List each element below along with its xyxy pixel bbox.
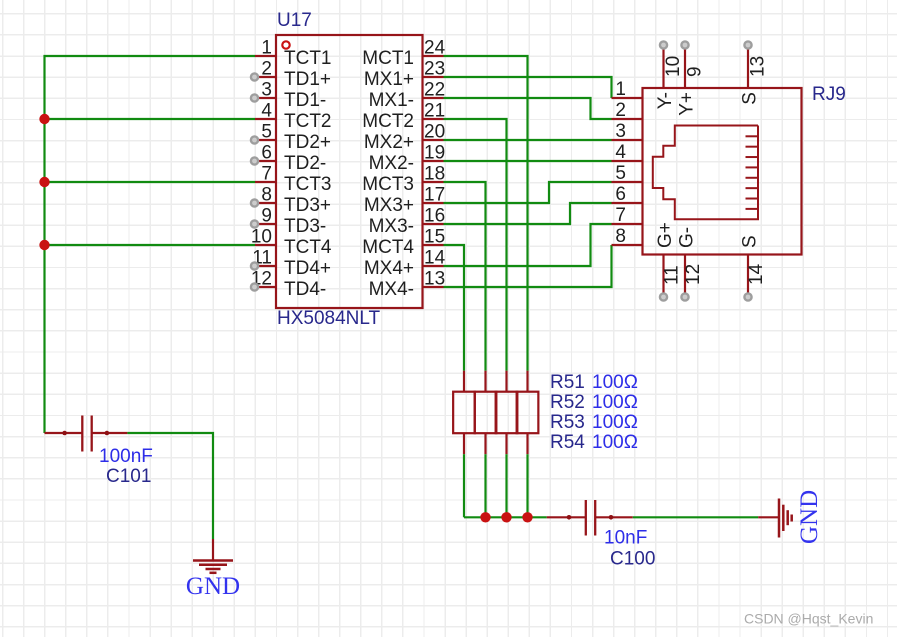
wire net MCT1 to resistor column (444, 56, 528, 371)
RJ9 pin 9 (Y+, top) (677, 41, 706, 115)
net label GND (right, rotated) (796, 490, 823, 544)
svg-text:1: 1 (261, 38, 272, 59)
ground GND (left) (193, 539, 233, 573)
wire net MX4- to RJ9 (444, 245, 612, 287)
RJ9 pin 6 (612, 184, 643, 205)
svg-text:9: 9 (261, 206, 272, 227)
svg-text:16: 16 (424, 206, 445, 227)
wire net MX2+ to RJ9 (444, 139, 612, 141)
svg-text:Y-: Y- (655, 92, 676, 109)
wire below R54 (526, 454, 528, 517)
svg-text:MCT4: MCT4 (362, 237, 414, 258)
svg-text:9: 9 (685, 66, 706, 77)
RJ9 pin 1 (612, 79, 643, 100)
svg-text:G+: G+ (655, 222, 676, 248)
svg-text:TD2+: TD2+ (284, 132, 331, 153)
svg-text:17: 17 (424, 185, 445, 206)
label R54 value 100Ω (592, 432, 638, 453)
RJ9 pin 14 (S, bottom) (740, 235, 768, 300)
svg-text:G-: G- (677, 227, 698, 248)
wire C101 to GND (127, 433, 213, 539)
svg-text:20: 20 (424, 122, 445, 143)
svg-text:S: S (740, 235, 761, 248)
pin 15 (MCT4) (362, 227, 445, 259)
svg-text:7: 7 (615, 205, 626, 226)
svg-text:6: 6 (261, 143, 272, 164)
svg-text:13: 13 (748, 56, 769, 77)
svg-text:TD3+: TD3+ (284, 195, 331, 216)
svg-text:8: 8 (615, 226, 626, 247)
pin 20 (MX2+) (364, 122, 445, 154)
wire net MX3- to RJ9 (444, 203, 612, 224)
junction at pin7 bus (39, 177, 49, 187)
wire net MCT2 to resistor column (444, 119, 507, 371)
svg-text:2: 2 (261, 59, 272, 80)
svg-text:22: 22 (424, 80, 445, 101)
wire net TCT1 (pin1 to left bus) (45, 56, 256, 433)
pin 10 (TCT4) (251, 227, 332, 259)
pin 7 (TCT3) (255, 164, 332, 196)
pin 24 (MCT1) (362, 38, 445, 70)
wire below R51 (463, 454, 465, 517)
svg-text:100Ω: 100Ω (592, 392, 638, 413)
svg-text:HX5084NLT: HX5084NLT (277, 308, 381, 329)
svg-text:10: 10 (663, 56, 684, 77)
svg-text:TD1+: TD1+ (284, 69, 331, 90)
pin 1 (TCT1) (255, 38, 332, 70)
RJ9 pin 13 (S, top) (740, 41, 769, 104)
svg-text:R51: R51 (550, 372, 585, 393)
pin 8 (TD3+) (251, 185, 331, 217)
svg-text:4: 4 (615, 142, 626, 163)
svg-text:U17: U17 (277, 10, 312, 31)
svg-text:Y+: Y+ (677, 92, 698, 116)
ic U17 (HX5084NLT Ethernet transformer) (276, 35, 423, 308)
capacitor C100 (547, 500, 633, 536)
wire net TCT2 (45, 118, 256, 120)
RJ9 pin 7 (612, 205, 643, 226)
svg-text:TCT1: TCT1 (284, 48, 332, 69)
label R51 value 100Ω (592, 372, 638, 393)
svg-text:MX1-: MX1- (369, 90, 414, 111)
wire below R52 (484, 454, 486, 517)
pin 13 (MX4-) (369, 269, 446, 301)
pin 5 (TD2+) (251, 122, 331, 154)
designator R54 (550, 432, 585, 453)
svg-text:3: 3 (615, 121, 626, 142)
svg-text:8: 8 (261, 185, 272, 206)
svg-text:MCT3: MCT3 (362, 174, 414, 195)
svg-text:MX4+: MX4+ (364, 258, 414, 279)
wire resistor commons to C100 (464, 516, 547, 518)
svg-text:GND: GND (796, 490, 823, 544)
RJ9 pin 12 (G-, bottom) (677, 227, 705, 301)
svg-text:MX3-: MX3- (369, 216, 414, 237)
svg-text:S: S (740, 92, 761, 105)
svg-text:MX2-: MX2- (369, 153, 414, 174)
svg-text:6: 6 (615, 184, 626, 205)
RJ9 pin 11 (G+, bottom) (655, 222, 683, 300)
svg-text:MX1+: MX1+ (364, 69, 414, 90)
RJ9 jack contact teeth (746, 136, 759, 209)
svg-text:TD2-: TD2- (284, 153, 326, 174)
connector RJ9 body (643, 88, 802, 255)
svg-text:TD4+: TD4+ (284, 258, 331, 279)
designator RJ9 (812, 84, 846, 105)
value HX5084NLT (277, 308, 381, 329)
label R53 value 100Ω (592, 412, 638, 433)
wire net MX4+ to RJ9 (444, 224, 612, 266)
svg-text:MX4-: MX4- (369, 279, 414, 300)
svg-text:C101: C101 (106, 466, 151, 487)
pin 6 (TD2-) (251, 143, 326, 175)
capacitor C101 (45, 416, 128, 452)
svg-text:4: 4 (261, 101, 272, 122)
wire C100 to GND (633, 516, 758, 518)
svg-text:R52: R52 (550, 392, 585, 413)
pin 16 (MX3-) (369, 206, 446, 238)
pin 19 (MX2-) (369, 143, 446, 175)
designator R51 (550, 372, 585, 393)
svg-text:R53: R53 (550, 412, 585, 433)
svg-text:TD1-: TD1- (284, 90, 326, 111)
svg-text:24: 24 (424, 38, 446, 59)
label R52 value 100Ω (592, 392, 638, 413)
resistor R52 (475, 371, 497, 455)
RJ9 pin 10 (Y-, top) (655, 41, 684, 109)
svg-text:3: 3 (261, 80, 272, 101)
RJ9 jack outline drawing (653, 126, 758, 220)
svg-text:100Ω: 100Ω (592, 372, 638, 393)
pin-1 indicator ring (282, 41, 289, 48)
svg-text:19: 19 (424, 143, 445, 164)
label 10nF (C100 value) (604, 528, 647, 549)
pin 14 (MX4+) (364, 248, 446, 280)
svg-text:5: 5 (615, 163, 626, 184)
designator R52 (550, 392, 585, 413)
RJ9 pin 2 (612, 100, 643, 121)
svg-text:15: 15 (424, 227, 445, 248)
pin 4 (TCT2) (255, 101, 332, 133)
svg-text:TD4-: TD4- (284, 279, 326, 300)
svg-text:1: 1 (615, 79, 626, 100)
RJ9 pin 8 (612, 226, 643, 247)
pin 22 (MX1-) (369, 80, 446, 112)
svg-text:5: 5 (261, 122, 272, 143)
svg-text:14: 14 (424, 248, 446, 269)
svg-text:18: 18 (424, 164, 445, 185)
junction R54 (522, 512, 532, 522)
pin 18 (MCT3) (362, 164, 445, 196)
designator U17 (277, 10, 312, 31)
wire net MCT4 to resistor column (444, 245, 465, 371)
svg-text:23: 23 (424, 59, 445, 80)
svg-text:100nF: 100nF (99, 446, 153, 467)
wire net MX1+ to RJ9 (444, 77, 612, 98)
svg-text:MCT2: MCT2 (362, 111, 414, 132)
label 100nF (C101 value) (99, 446, 153, 467)
svg-text:TCT2: TCT2 (284, 111, 332, 132)
net label GND (left) (186, 573, 240, 600)
junction R53 (501, 512, 511, 522)
wire net TCT4 (45, 244, 256, 246)
svg-text:7: 7 (261, 164, 272, 185)
svg-text:MCT1: MCT1 (362, 48, 414, 69)
wire net MCT3 to resistor column (444, 182, 486, 371)
ground GND (right, rotated) (758, 499, 792, 538)
resistor R51 (453, 371, 475, 455)
watermark (744, 611, 873, 627)
pin 12 (TD4-) (251, 269, 326, 301)
svg-text:TCT3: TCT3 (284, 174, 332, 195)
svg-text:TCT4: TCT4 (284, 237, 332, 258)
svg-text:RJ9: RJ9 (812, 84, 846, 105)
pin 23 (MX1+) (364, 59, 445, 91)
designator C101 (106, 466, 151, 487)
svg-text:TD3-: TD3- (284, 216, 326, 237)
pin 21 (MCT2) (362, 101, 445, 133)
pin 2 (TD1+) (251, 59, 331, 91)
resistor R53 (496, 371, 518, 455)
resistor R54 (517, 371, 539, 455)
svg-text:10nF: 10nF (604, 528, 647, 549)
svg-text:100Ω: 100Ω (592, 432, 638, 453)
svg-text:12: 12 (683, 264, 704, 285)
svg-text:14: 14 (746, 263, 767, 285)
svg-text:2: 2 (615, 100, 626, 121)
svg-text:13: 13 (424, 269, 445, 290)
wire net TCT3 (45, 181, 256, 183)
svg-text:R54: R54 (550, 432, 585, 453)
RJ9 pin 3 (612, 121, 643, 142)
pin 9 (TD3-) (251, 206, 326, 238)
wire below R53 (505, 454, 507, 517)
wire net MX2- to RJ9 (444, 160, 612, 162)
svg-text:100Ω: 100Ω (592, 412, 638, 433)
wire net MX3+ to RJ9 (444, 182, 612, 203)
wire net MX1- to RJ9 (444, 98, 612, 119)
junction at pin10 bus (39, 240, 49, 250)
RJ9 pin 5 (612, 163, 643, 184)
designator R53 (550, 412, 585, 433)
svg-text:MX2+: MX2+ (364, 132, 414, 153)
svg-text:MX3+: MX3+ (364, 195, 414, 216)
pin 11 (TD4+) (251, 248, 331, 280)
designator C100 (610, 549, 655, 570)
RJ9 pin 4 (612, 142, 643, 163)
svg-text:GND: GND (186, 573, 240, 600)
svg-text:CSDN @Hqst_Kevin: CSDN @Hqst_Kevin (744, 611, 873, 627)
junction at pin4 bus (39, 114, 49, 124)
svg-text:21: 21 (424, 101, 445, 122)
svg-text:C100: C100 (610, 549, 655, 570)
pin 17 (MX3+) (364, 185, 445, 217)
svg-text:11: 11 (662, 265, 683, 285)
junction R52 (480, 512, 490, 522)
pin 3 (TD1-) (251, 80, 326, 112)
